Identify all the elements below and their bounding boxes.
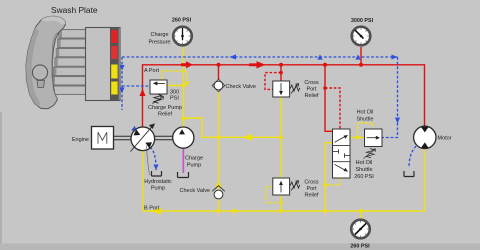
svg-text:Cross: Cross	[304, 180, 319, 186]
wire: charge pump suction to tank	[182, 148, 184, 173]
engine box	[92, 127, 114, 150]
wire: motor case drain	[409, 146, 416, 168]
pistons	[51, 30, 87, 95]
cross port relief valve top body	[273, 81, 300, 97]
junction dot B line at relief column	[279, 209, 283, 213]
yoke left shade	[26, 27, 41, 107]
shuttle bottom cell arrow	[335, 164, 346, 170]
cross port relief bottom spring	[290, 182, 300, 188]
pilot: top cross relief pilot	[265, 73, 281, 90]
port strip backing	[110, 28, 119, 100]
piston shoes	[51, 30, 62, 94]
flow arrow down on pump drain	[153, 165, 158, 171]
boss tab	[37, 81, 45, 88]
hydrostatic pump	[131, 124, 155, 152]
cross port relief valve bottom body	[273, 178, 300, 195]
svg-text:Cross: Cross	[304, 80, 319, 86]
svg-text:A Port: A Port	[144, 68, 159, 74]
junction dot B line at check column	[217, 209, 221, 213]
charge pump relief spring	[154, 94, 162, 103]
flow arrow up marker	[317, 54, 322, 59]
wire: shuttle B-side feed	[325, 143, 332, 211]
hot oil relief arrow (right)	[367, 137, 377, 139]
wire: cross-port relief column top	[280, 97, 282, 178]
wire: charge gauge stub down to relief outlet junction	[183, 47, 185, 118]
charge pump flow triangle	[179, 129, 185, 134]
wire: A port main line	[143, 65, 425, 128]
pump flow triangle up	[134, 129, 141, 135]
flow arrow right on B line	[233, 208, 240, 213]
svg-text:Charge Pump: Charge Pump	[148, 105, 182, 111]
junction dot B line at gauge stub	[359, 209, 363, 213]
wire: junction down to charge pump inlet	[183, 118, 185, 127]
pilot down arrow at charge relief junction	[184, 82, 189, 87]
svg-text:Pump: Pump	[151, 186, 165, 192]
junction dot B line at shuttle feed	[323, 209, 327, 213]
junction dot shuttle pilot tap	[323, 183, 327, 187]
yoke top face highlight	[41, 16, 66, 24]
pilot: charge pump relief pilot	[162, 71, 187, 83]
svg-text:Hot Oil: Hot Oil	[357, 110, 374, 116]
drive shaft engine to pump	[114, 136, 132, 139]
svg-text:Relief: Relief	[158, 112, 173, 118]
junction dot shuttle outlet	[356, 136, 360, 140]
svg-text:Charge: Charge	[185, 156, 203, 162]
svg-text:Shuttle: Shuttle	[356, 117, 373, 123]
flow arrow down on right drop	[395, 118, 400, 124]
swash plate yoke body	[26, 16, 66, 108]
flow arrow left on B line	[151, 208, 162, 215]
shuttle top cell arrow	[335, 137, 346, 143]
flow arrow left on top run	[230, 54, 237, 59]
leader line to hydrostatic pump label	[147, 146, 150, 176]
flow arrow up into bottom check valve	[215, 181, 221, 188]
junction dot charge line at relief column	[279, 135, 283, 139]
needle	[355, 30, 364, 39]
junction dot charge relief outlet	[182, 84, 186, 88]
junction dot A line gauge	[359, 63, 363, 67]
hot oil relief spring	[367, 149, 375, 158]
motor	[414, 126, 436, 148]
svg-text:Motor: Motor	[438, 136, 452, 142]
flow arrow into pump	[131, 126, 137, 132]
charge pump relief valve body	[150, 80, 167, 104]
wire: cross-port relief column bottom	[280, 195, 282, 211]
charge pump relief arrow	[156, 82, 165, 84]
hot oil shuttle valve (3 position)	[333, 129, 351, 178]
motor triangle top (down)	[421, 127, 429, 133]
junction dot A line shuttle feed	[323, 63, 327, 67]
pilot: shuttle spring-end drain pilot	[325, 178, 340, 185]
hot oil shuttle relief valve body	[364, 129, 383, 159]
needle	[355, 223, 366, 234]
yoke boss	[32, 65, 47, 80]
svg-text:260 PSI: 260 PSI	[354, 174, 374, 180]
260 psi loop gauge	[351, 220, 370, 239]
cross port relief top arrow (down)	[280, 83, 282, 92]
hot oil relief adjust arrow	[364, 149, 376, 159]
junction dot charge line at check column	[217, 135, 221, 139]
charge pressure gauge	[173, 27, 192, 46]
flow arrow down on left drop lower	[119, 88, 124, 94]
wire: 3000 psi gauge stub	[360, 47, 362, 65]
flow arrow with tail on A line	[249, 61, 266, 68]
port yellow segment 1	[111, 65, 117, 79]
check valve bottom	[212, 186, 225, 199]
svg-text:260 PSI: 260 PSI	[172, 18, 192, 24]
yoke inner edge	[52, 32, 60, 100]
svg-text:Hydrostatic: Hydrostatic	[144, 179, 172, 185]
svg-text:3000 PSI: 3000 PSI	[351, 18, 374, 24]
junction dot bottom relief pilot tap	[279, 201, 282, 204]
wire: case drain right drop	[382, 57, 398, 138]
svg-text:Engine: Engine	[72, 137, 89, 143]
flow arrow down on left drop upper	[119, 65, 124, 71]
svg-text:Hot Oil: Hot Oil	[356, 160, 373, 166]
cross port relief top spring	[290, 85, 300, 91]
wire: bottom gauge stub	[360, 211, 362, 219]
pilot: hot oil shuttle relief pilot	[358, 123, 374, 138]
svg-text:Shuttle: Shuttle	[355, 167, 372, 173]
junction dot A line cross relief	[279, 63, 283, 67]
wire: shuttle outlet to hot oil relief	[350, 137, 365, 139]
port yellow segment 2	[111, 82, 117, 95]
junction dot shuttle pilot tap	[323, 86, 327, 90]
cylinder barrel	[86, 28, 121, 101]
svg-text:Charge: Charge	[150, 32, 168, 38]
junction dot charge gauge tee	[182, 117, 186, 121]
svg-text:Swash Plate: Swash Plate	[51, 5, 98, 15]
svg-text:Pressure: Pressure	[148, 40, 170, 46]
flow arrow right at top corner	[392, 55, 398, 60]
wire: charge relief drain branch	[122, 85, 150, 87]
engine M glyph	[98, 132, 107, 144]
svg-text:Relief: Relief	[304, 93, 319, 99]
port red segment 2	[111, 46, 117, 59]
tank below charge pump suction	[178, 172, 189, 178]
flow arrow up to A port	[140, 89, 146, 97]
junction dot cross relief pilot	[279, 71, 283, 75]
wire: case drain left drop	[121, 57, 123, 110]
3000 psi gauge	[352, 27, 371, 46]
wire: shuttle A-side feed	[325, 65, 333, 132]
pump flow triangle down	[145, 142, 152, 148]
flow arrow down into motor	[422, 127, 428, 134]
cross port relief bottom adjust arrow	[291, 181, 299, 191]
svg-text:PSI: PSI	[170, 96, 179, 102]
pilot: shuttle A pilot	[325, 88, 340, 129]
pilot: bottom cross port relief pilot	[266, 187, 281, 203]
wire: charge line east run	[184, 118, 282, 137]
svg-text:Relief: Relief	[304, 193, 319, 199]
cross port relief top adjust arrow	[291, 84, 299, 94]
barrel inner lighter	[87, 29, 110, 100]
needle	[182, 28, 184, 40]
variable displacement arrow	[131, 124, 155, 152]
svg-text:260 PSI: 260 PSI	[350, 244, 370, 250]
flow arrow up marker 2	[355, 54, 360, 59]
tank below motor drain	[404, 171, 414, 177]
wire: top cross relief feed	[280, 65, 282, 82]
junction dot A line check valve	[217, 63, 221, 67]
port red segment 1	[111, 30, 117, 43]
wire: case drain top run	[122, 56, 398, 58]
cross port relief bottom arrow (up)	[280, 185, 282, 193]
shuttle mid cell blocked ports	[333, 149, 350, 157]
wire: top check valve feed	[218, 65, 220, 81]
motor triangle bottom (up)	[421, 142, 429, 148]
svg-text:Check Valve: Check Valve	[180, 188, 210, 194]
charge pump relief adjust arrow	[153, 97, 164, 104]
flow double chevron on A line	[181, 61, 193, 68]
svg-text:Pump: Pump	[187, 163, 201, 169]
bottom window edge shade	[0, 244, 480, 250]
wire: pump case drain	[150, 147, 156, 170]
left window edge shade	[0, 112, 2, 250]
charge pump	[173, 127, 194, 148]
tank below hydrostatic pump drain	[152, 171, 162, 176]
wire: relief valve outlet to junction	[167, 85, 184, 87]
flow arrow left on charge east run	[242, 134, 252, 141]
wire: B port main line	[143, 148, 425, 211]
svg-text:Check Valve: Check Valve	[226, 84, 256, 90]
wire: check-valve column	[218, 91, 220, 211]
svg-text:Port: Port	[306, 87, 317, 93]
check valve top	[212, 79, 225, 92]
svg-text:B Port: B Port	[144, 206, 160, 212]
drive shaft pump to charge pump	[155, 136, 173, 139]
svg-text:Port: Port	[306, 186, 317, 192]
